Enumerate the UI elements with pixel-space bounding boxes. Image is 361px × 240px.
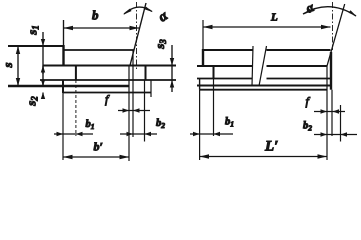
L' dimension line (200, 156, 327, 158)
arrow f left (123, 108, 130, 112)
arrow s2 up (41, 93, 45, 100)
arrow b' right (120, 155, 130, 159)
arrow L' left (200, 154, 209, 158)
centerline (dash-dot) (136, 2, 138, 69)
bevel slant right (327, 4, 345, 66)
bevel slant edge (130, 3, 146, 66)
L'/f shared extension right (326, 66, 328, 160)
bottom line (H5b) (200, 89, 327, 91)
f dimension line (118, 110, 150, 112)
arrow L' right (318, 154, 328, 158)
lower edge V1b (62, 80, 64, 94)
label alpha (156, 9, 171, 26)
arrow s down (16, 78, 20, 86)
bottom line (H5a) (197, 85, 330, 87)
arrow b2 left (127, 132, 134, 136)
b' dimension line (63, 156, 129, 158)
f extension left (128, 66, 130, 162)
label s2 (24, 96, 40, 107)
f right-fig dimension line (314, 111, 345, 113)
plate top surface left (H1) (8, 45, 64, 47)
plate bottom line (H5) (8, 85, 129, 87)
arrow s1 down (41, 39, 45, 46)
dimension s3 line (171, 45, 173, 92)
arrow L right (321, 25, 331, 29)
label s3 (152, 39, 168, 50)
arrow L left (203, 25, 213, 29)
second tier left wall (213, 66, 215, 79)
interface line (H4) (197, 78, 253, 80)
b1 right-fig extension (213, 79, 215, 136)
dimension b extension left (63, 20, 65, 45)
upper left wall (202, 49, 204, 66)
arc arrow right (144, 7, 152, 13)
f right-fig extension (331, 90, 333, 136)
arrow b' left (63, 155, 73, 159)
angle arc alpha (124, 7, 152, 14)
cladding left edge (199, 79, 201, 90)
arrow b2R right (341, 132, 348, 136)
L dimension line (203, 26, 331, 28)
svg-text:L′: L′ (264, 139, 278, 155)
arrow b right (130, 26, 140, 30)
right short edge V4 (150, 80, 152, 97)
b1 extension left (62, 93, 64, 160)
b1 right-fig dimension line (190, 133, 233, 135)
dimension s2 upper part (42, 79, 44, 86)
b2 dimension line (120, 133, 157, 135)
arc arrow right fig left end (303, 9, 311, 15)
arrow s1 up (below interface) (41, 66, 45, 73)
arrow b1 right (76, 132, 83, 136)
arrow s3 up (170, 80, 174, 88)
label s1 (25, 25, 41, 36)
f extension right (132, 50, 134, 137)
angle arc alpha right (303, 7, 356, 16)
cladding stripped edge V5 (42, 66, 44, 87)
L' extension left (199, 90, 201, 160)
dimension b line (64, 27, 140, 29)
break line right (259, 46, 267, 86)
groove left wall V1 (62, 45, 64, 66)
arrow b2 right (145, 132, 152, 136)
b2 right-fig dimension line (314, 134, 357, 136)
arrow b1R right (214, 132, 221, 136)
arc arrow right fig right end (349, 10, 357, 16)
top surface (203, 49, 253, 51)
arrow b1 left (57, 132, 64, 136)
dimension s line (17, 46, 19, 86)
arrow b2R left (321, 132, 328, 136)
b2 right-fig extension (340, 105, 342, 142)
b1 dimension line (54, 133, 93, 135)
arrow s2 down (41, 80, 45, 87)
plate right end edge (330, 52, 332, 90)
interface line (H3) (197, 65, 253, 67)
arrow s up (16, 46, 20, 54)
dimension s1 upper leader (42, 32, 44, 66)
arrow fR right (333, 109, 340, 113)
L extension left (202, 20, 204, 49)
label s (0, 62, 15, 68)
groove upper surface (H2) (64, 49, 135, 51)
arrow f right (133, 108, 140, 112)
dimension b extension right (144, 80, 146, 142)
svg-text:b′: b′ (94, 140, 103, 154)
arrow b1R left (193, 132, 200, 136)
centerline right (dash-dot) (332, 2, 334, 50)
dimension s2 lower part (42, 93, 44, 100)
arrow b left (64, 26, 74, 30)
arc arrow left (123, 9, 131, 15)
second tier right wall V3 (145, 66, 147, 81)
break line left (252, 46, 253, 86)
label alpha right (303, 0, 317, 16)
svg-text:s: s (0, 62, 15, 68)
svg-text:b: b (92, 8, 99, 23)
arrow fR left (321, 109, 328, 113)
b1 extension right (75, 80, 77, 136)
svg-text:L: L (270, 12, 278, 24)
arrow s3 down (170, 58, 174, 66)
second interface line (H4) (40, 79, 176, 81)
lower bead bottom line (H6) (63, 92, 151, 94)
leader s1 below (42, 66, 44, 75)
second tier left wall V2 (75, 66, 77, 81)
layer interface line (H3) (43, 65, 176, 67)
